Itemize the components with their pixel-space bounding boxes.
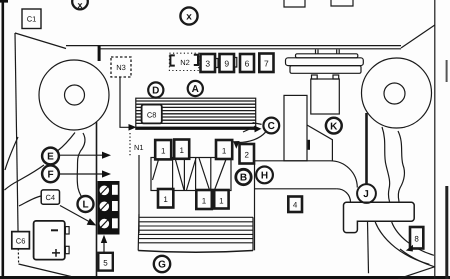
box 7	[259, 54, 273, 73]
box 8 arrowhead	[406, 245, 413, 252]
terminal strip	[98, 181, 120, 235]
callout F	[42, 165, 59, 182]
svg-text:x: x	[77, 0, 82, 10]
flywheel tier 2	[286, 58, 364, 66]
F arrow	[59, 170, 111, 177]
svg-text:7: 7	[264, 59, 269, 69]
svg-text:C6: C6	[16, 237, 26, 246]
N2 bracket left	[170, 55, 174, 65]
right outer border	[445, 60, 448, 279]
wire wheel S-curve to L	[77, 133, 85, 201]
chassis top-right diagonal	[401, 25, 435, 48]
svg-text:2: 2	[244, 151, 249, 160]
flywheel tier 1	[296, 54, 358, 58]
C pointer curve	[239, 132, 266, 142]
wire E to border	[5, 165, 45, 190]
mechanism left vertical	[138, 155, 140, 233]
svg-text:B: B	[240, 173, 247, 184]
svg-text:x: x	[186, 12, 192, 23]
box C4	[41, 190, 59, 204]
block bottom-right notch	[243, 126, 256, 132]
right wavy wire 2	[398, 131, 404, 202]
plate right-edge vertical	[254, 161, 256, 250]
T-bar hanger line	[368, 221, 369, 273]
svg-text:8: 8	[414, 235, 419, 244]
box C1	[22, 9, 41, 29]
svg-text:1: 1	[161, 147, 166, 156]
bottom outer border	[0, 276, 450, 279]
svg-text:A: A	[192, 84, 199, 95]
mechanism deck line upper	[254, 160, 330, 162]
svg-text:C1: C1	[27, 15, 37, 24]
T-bar bracket	[344, 202, 415, 232]
box 8	[410, 227, 423, 249]
tab right of 9	[235, 58, 237, 68]
head block outline	[136, 98, 256, 129]
box C6	[12, 232, 30, 249]
box 1a	[155, 140, 171, 159]
svg-text:9: 9	[224, 59, 229, 69]
box 3	[201, 54, 216, 72]
lower right diagonal	[398, 267, 435, 279]
C pointer arrowhead	[233, 141, 240, 149]
battery	[34, 221, 70, 260]
callout L	[78, 196, 94, 212]
svg-text:J: J	[363, 189, 369, 200]
box 6	[240, 54, 254, 72]
svg-text:1: 1	[163, 195, 168, 204]
chassis top edge line 1	[66, 45, 401, 47]
box 9	[220, 54, 235, 72]
callout C	[263, 118, 279, 134]
callout J	[357, 184, 376, 203]
svg-text:D: D	[152, 86, 159, 97]
box 1c	[216, 140, 232, 159]
wire crossing near border	[5, 137, 18, 170]
tab between 3 and 9	[216, 59, 218, 68]
guide post under chassis	[98, 46, 101, 61]
deck curve lower to T-bar	[337, 189, 351, 203]
box 2	[240, 144, 255, 164]
left outer border	[0, 0, 8, 279]
svg-text:C4: C4	[46, 193, 56, 202]
head block bottom band	[136, 127, 256, 130]
box 1d lower	[158, 189, 173, 208]
bold vertical to J	[365, 113, 368, 185]
N3 pointer arrowhead	[129, 124, 137, 131]
chassis inner left vertical	[15, 33, 18, 248]
box 1f lower	[214, 190, 228, 209]
lower right curve 1	[375, 222, 429, 264]
callout X2	[180, 7, 197, 24]
dotted lever link	[129, 133, 131, 157]
box 4	[288, 197, 302, 213]
long vertical chassis line x=96	[96, 122, 98, 276]
top screw hole 1	[284, 0, 305, 7]
svg-text:6: 6	[245, 59, 250, 69]
flywheel mount tab 2	[337, 50, 340, 54]
dashed box N3	[111, 57, 131, 77]
right wavy wire 1	[382, 127, 390, 202]
box 1e lower	[196, 190, 212, 209]
svg-text:G: G	[158, 260, 166, 271]
dotted box N2	[169, 53, 198, 70]
top screw hole 2	[331, 0, 353, 6]
svg-text:E: E	[47, 152, 54, 163]
right wheel hub	[384, 83, 405, 104]
lower right join curve	[400, 249, 435, 267]
svg-text:4: 4	[293, 201, 298, 210]
flywheel tier 3	[290, 66, 361, 74]
N2 bracket right	[194, 55, 198, 65]
tall guide plate	[284, 95, 307, 160]
box C8	[142, 105, 162, 124]
L arrow to strip	[60, 206, 96, 226]
arrow 5 to strip	[101, 235, 107, 253]
chassis top edge line 2	[100, 48, 401, 50]
chassis right vertical	[434, 0, 436, 279]
lever frame diagonals	[153, 157, 227, 191]
callout H	[256, 167, 273, 184]
left wheel hub	[65, 85, 85, 105]
svg-text:1: 1	[222, 147, 227, 156]
E arrow	[59, 152, 111, 159]
head block stripes	[136, 101, 256, 123]
right wheel outer	[362, 58, 432, 128]
callout X1	[72, 0, 88, 10]
svg-text:H: H	[261, 171, 268, 182]
svg-text:N1: N1	[134, 143, 144, 152]
callout D	[148, 82, 163, 97]
motor body K	[311, 79, 340, 114]
flywheel mount tab 1	[316, 50, 319, 54]
mechanism deck line lower	[254, 188, 337, 190]
svg-text:1: 1	[219, 197, 224, 206]
chassis bottom-left diagonal	[19, 264, 72, 277]
motor tab right	[333, 75, 339, 79]
callout E	[42, 148, 59, 165]
svg-text:L: L	[82, 200, 88, 211]
wire wheel to E	[58, 133, 75, 151]
motor tab left	[312, 75, 318, 79]
box 1b	[174, 140, 189, 159]
box 5	[98, 253, 113, 271]
svg-text:F: F	[47, 170, 53, 181]
block to C connector	[253, 123, 262, 125]
svg-text:1: 1	[179, 146, 184, 155]
small bold bar right of plate	[308, 140, 310, 150]
svg-text:N3: N3	[116, 63, 126, 72]
callout K	[326, 118, 342, 134]
left wheel outer	[39, 60, 109, 130]
striped base plate	[138, 214, 253, 252]
svg-text:1: 1	[202, 197, 207, 206]
wire border to C4	[19, 196, 41, 206]
svg-text:C: C	[268, 121, 275, 132]
N3 pointer line	[120, 77, 130, 127]
callout G	[154, 256, 170, 272]
callout B	[236, 169, 251, 184]
plate diagonal edge	[307, 125, 332, 161]
block bottom-right arrowhead	[254, 126, 261, 133]
svg-text:K: K	[330, 121, 338, 132]
chassis top-left diagonal	[15, 33, 66, 49]
lower right curve 2	[392, 222, 434, 255]
svg-text:5: 5	[103, 258, 108, 267]
callout A	[188, 81, 203, 96]
svg-text:N2: N2	[180, 58, 190, 67]
lever frame	[151, 158, 231, 191]
deck curve upper to J	[330, 161, 357, 188]
svg-text:C8: C8	[147, 111, 157, 120]
svg-text:3: 3	[205, 59, 210, 69]
